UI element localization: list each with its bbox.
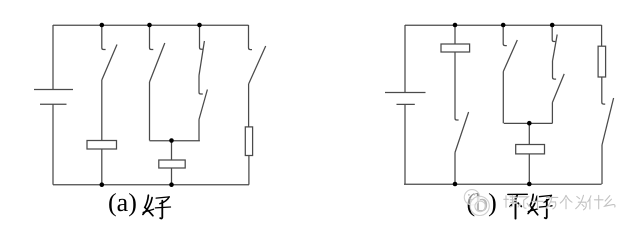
switch S9 blade — [552, 74, 564, 103]
wire: node to coil K2 — [171, 141, 173, 161]
wire: coil K4 to bottom rail — [528, 154, 530, 184]
wire: resistor R1 to bottom rail — [248, 156, 250, 185]
wire: circuit (b) top rail — [405, 24, 602, 26]
wire: S3 to S4 — [199, 76, 203, 95]
battery BT2 — [385, 93, 426, 105]
label: 不 (circuit b) — [508, 194, 528, 218]
wire: top rail to coil K3 — [454, 25, 456, 44]
wire: circuit (a) top rail — [53, 24, 249, 26]
watermark text: 博乐十万个为什么 — [504, 195, 616, 210]
wire: S4 down to junction line — [198, 120, 200, 141]
switch S2 fixed contact — [150, 25, 154, 50]
wire: S9 down to junction line — [551, 103, 553, 124]
wire: resistor R2 to switch S10 — [602, 77, 605, 104]
wire: S8 to S9 — [553, 61, 557, 80]
relay coil K1 — [87, 141, 117, 150]
node dot: (a) top rail branch 1 — [100, 23, 105, 28]
wire: battery BT2 bottom lead — [404, 104, 406, 184]
wire: S1 to coil K1 — [101, 80, 103, 141]
switch S3 blade — [199, 41, 204, 76]
node dot: (b) bottom rail branch 1 — [453, 182, 458, 187]
wire: battery BT2 top lead — [404, 25, 406, 93]
switch S1 blade — [102, 45, 117, 81]
label: (b) — [467, 188, 497, 217]
relay coil K4 — [516, 145, 545, 154]
label: 好 (circuit a) — [143, 195, 171, 218]
wire: circuit (a) bottom rail — [53, 184, 249, 186]
wire: coil K2 to bottom rail — [171, 168, 173, 185]
resistor R2 — [598, 46, 606, 77]
switch S8 fixed contact — [552, 25, 555, 42]
wire: S5 to resistor R1 — [248, 84, 250, 127]
node dot: (a) bottom rail branch 1 — [100, 182, 105, 187]
wire: right branch drop from top rail — [249, 25, 253, 50]
wire: junction line joining S2 and S4 branches — [150, 140, 200, 142]
node dot: (b) top rail branch 1 — [453, 23, 458, 28]
label: 好 (circuit b) — [528, 194, 552, 218]
wire: coil K3 to switch S6 — [455, 52, 459, 120]
wire: battery BT1 bottom lead — [52, 104, 54, 184]
node dot: (a) top rail branch 3 — [197, 23, 202, 28]
switch S1 fixed contact — [102, 25, 106, 50]
wire: battery BT1 top lead — [52, 25, 54, 90]
wire: S2 down to junction line — [149, 82, 151, 141]
svg-text:(a): (a) — [108, 188, 137, 217]
wire: circuit (b) bottom rail — [404, 183, 602, 185]
watermark logo (two overlapping circles with face) — [464, 190, 489, 216]
label: (a) — [108, 188, 137, 217]
battery BT1 — [34, 90, 73, 105]
node dot: (b) top rail branch 2 — [501, 23, 506, 28]
wire: S6 to bottom rail — [454, 153, 456, 185]
switch S3 fixed contact — [200, 25, 204, 49]
wire: junction line joining S7 and S9 branches — [504, 122, 553, 124]
relay coil K3 — [441, 44, 470, 52]
switch S7 blade — [503, 40, 517, 72]
relay coil K2 — [159, 160, 185, 168]
wire: S10 to bottom rail — [601, 145, 603, 184]
switch S5 blade — [249, 46, 266, 84]
switch S7 fixed contact — [503, 25, 507, 46]
node dot: (a) bottom rail coil K2 — [169, 182, 174, 187]
node dot: (b) junction line coil K4 tap — [527, 121, 532, 126]
resistor R1 — [245, 127, 252, 156]
switch S4 blade — [199, 90, 207, 120]
switch S10 blade — [602, 98, 614, 145]
switch S8 blade — [553, 35, 558, 61]
wire: S7 down to junction line — [502, 72, 504, 124]
wire: coil K1 to bottom rail — [101, 149, 103, 185]
switch S2 blade — [150, 43, 165, 82]
wire: top rail to resistor R2 — [601, 25, 603, 46]
node dot: (b) bottom rail coil K4 — [527, 182, 532, 187]
node dot: (a) top rail branch 2 — [147, 23, 152, 28]
switch S6 blade — [455, 112, 469, 153]
node dot: (a) junction line coil K2 tap — [169, 138, 174, 143]
node dot: (b) top rail branch 3 — [550, 23, 555, 28]
wire: node to coil K4 — [528, 123, 530, 144]
